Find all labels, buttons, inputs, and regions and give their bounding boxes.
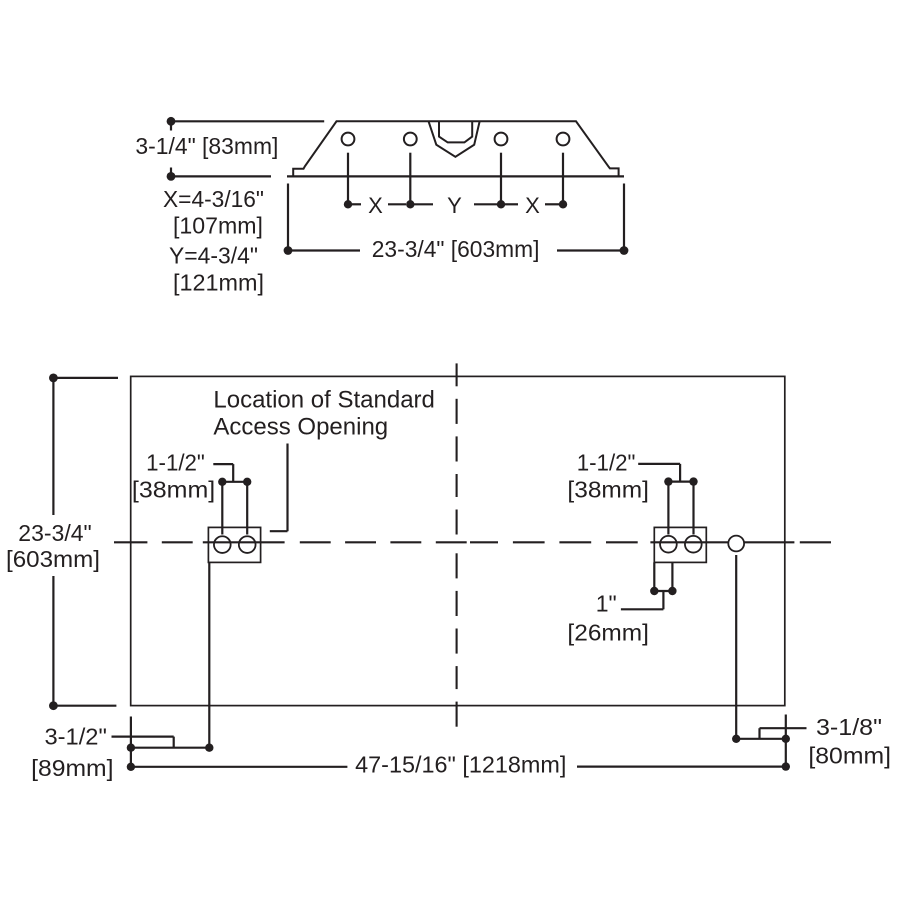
horizontal centerline (114, 541, 831, 543)
svg-text:3-1/2": 3-1/2" (44, 724, 106, 750)
svg-text:[38mm]: [38mm] (132, 477, 215, 503)
X Y X dimension dots (344, 200, 567, 208)
svg-text:47-15/16" [1218mm]: 47-15/16" [1218mm] (355, 752, 566, 778)
left plate extension to bottom (208, 562, 210, 747)
dimension 23-3/4 603mm left (53, 378, 118, 706)
dimension 3-1/4 83mm (171, 121, 324, 176)
svg-text:[603mm]: [603mm] (6, 546, 100, 572)
svg-text:[89mm]: [89mm] (31, 755, 113, 781)
hole 1 extension line (347, 153, 349, 205)
left rect edge extension (130, 717, 132, 768)
svg-text:Access Opening: Access Opening (213, 414, 388, 441)
svg-text:23-3/4": 23-3/4" (18, 520, 91, 546)
dimension 23-3/4 603mm top (288, 184, 624, 251)
single hole extension line (735, 555, 737, 739)
left plate dimension 1-1/2 38mm (213, 464, 247, 534)
vertical centerline (456, 363, 458, 726)
bracket bottom edge (287, 175, 624, 177)
svg-text:X=4-3/16": X=4-3/16" (163, 186, 264, 212)
hole 4 extension line (562, 153, 564, 205)
svg-text:1": 1" (596, 591, 617, 617)
hole 4 (557, 133, 570, 146)
svg-text:Y=4-3/4": Y=4-3/4" (169, 243, 258, 269)
svg-text:[107mm]: [107mm] (173, 213, 263, 239)
single hole circle (728, 536, 744, 552)
right access plate (654, 527, 706, 562)
hole 2 extension line (409, 153, 411, 205)
svg-text:Location of Standard: Location of Standard (213, 386, 435, 413)
svg-text:[121mm]: [121mm] (173, 270, 264, 296)
bracket outline (293, 121, 618, 176)
right plate dimension 1-1/2 38mm (638, 464, 693, 535)
left plate hole 2 (239, 536, 256, 553)
hole 3 extension line (500, 153, 502, 205)
svg-text:X: X (368, 193, 383, 218)
svg-text:3-1/4" [83mm]: 3-1/4" [83mm] (135, 133, 278, 159)
access opening leader (270, 444, 288, 532)
X Y X dimension segments (352, 203, 559, 205)
dimension 3-1/8 80mm (736, 715, 806, 767)
svg-text:X: X (525, 193, 540, 218)
svg-text:[38mm]: [38mm] (567, 477, 649, 503)
svg-text:[26mm]: [26mm] (567, 620, 649, 646)
svg-text:[80mm]: [80mm] (808, 743, 891, 769)
left plate hole 1 (214, 536, 231, 553)
dimension 1 26mm below right plate (621, 562, 673, 609)
svg-text:23-3/4" [603mm]: 23-3/4" [603mm] (372, 236, 540, 262)
right plate hole 1 (660, 536, 677, 553)
dimension 3-1/2 89mm (112, 737, 210, 748)
notch outer (429, 122, 480, 157)
left access plate (208, 527, 260, 562)
right plate hole 2 (685, 536, 702, 553)
svg-text:Y: Y (447, 193, 462, 218)
hole 1 (342, 133, 355, 146)
countertop rectangle (131, 376, 785, 705)
hole 2 (404, 133, 417, 146)
svg-text:1-1/2": 1-1/2" (146, 450, 205, 476)
svg-text:3-1/8": 3-1/8" (816, 714, 882, 740)
dimension 47-15/16 1218mm (131, 765, 786, 767)
svg-text:1-1/2": 1-1/2" (577, 450, 636, 476)
hole 3 (495, 133, 508, 146)
notch inner (439, 122, 472, 143)
